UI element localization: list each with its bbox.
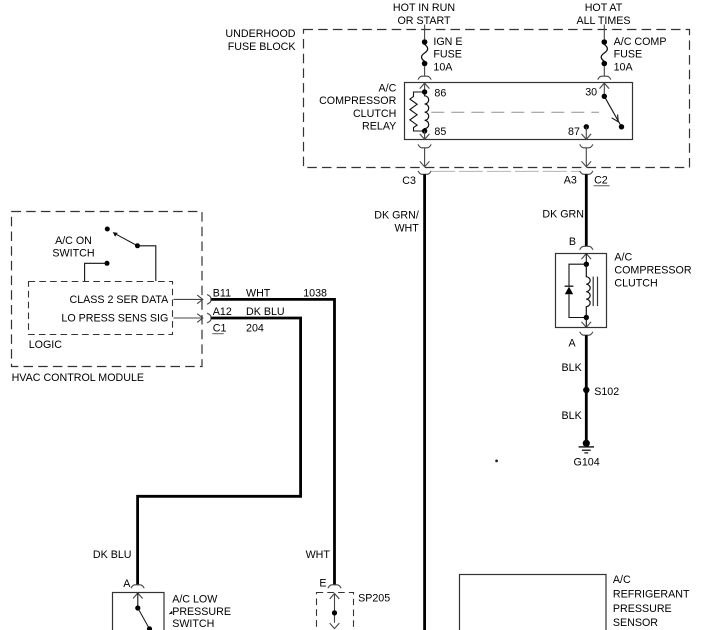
svg-text:FUSE: FUSE [614,49,643,61]
relay box A/C COMPRESSOR CLUTCH RELAY [405,83,633,140]
wire feed from HOT IN RUN to IGN E fuse [424,25,426,40]
fuse IGN E 10A [422,39,428,66]
svg-text:A/C: A/C [378,82,396,94]
connector female at clutch pin A [580,332,593,335]
junction node top of clutch [584,262,589,267]
connector C2 female cup (pin A3) [580,171,593,174]
svg-text:SENSOR: SENSOR [613,617,658,629]
low pressure switch pin A male arrow [133,593,143,608]
svg-text:87: 87 [568,126,580,138]
svg-text:FUSE BLOCK: FUSE BLOCK [228,41,297,53]
connector female at relay pin 30 [598,76,611,79]
relay switch contact (movable blade from 30) [604,96,624,129]
svg-text:A12: A12 [213,306,232,318]
label IGN E FUSE 10A [433,36,462,74]
svg-text:SWITCH: SWITCH [52,248,94,260]
svg-text:FUSE: FUSE [433,49,462,61]
logic box (dashed) [29,282,173,335]
svg-text:LOGIC: LOGIC [29,339,63,351]
connector female pin A12 [207,313,211,323]
label A/C LOW PRESSURE SWITCH [172,594,231,630]
svg-text:RELAY: RELAY [362,121,396,133]
splice pack SP205 box (dashed) [317,593,354,630]
svg-text:85: 85 [434,126,446,138]
svg-text:B: B [569,236,576,248]
relay internal dashed link (coil to switch) [431,111,599,113]
relay coil (between pins 86 and 85) [425,95,429,130]
wire fuse A/C COMP to relay pin 30 connector [603,66,605,76]
splice pack internal [330,594,340,629]
svg-text:C2: C2 [594,175,608,187]
svg-text:30: 30 [585,86,597,98]
ground G104 [579,440,594,453]
clutch pin A male arrow [582,318,592,328]
pin 30 (male arrow into relay) [600,83,610,99]
wire BLK (clutch pin A to ground G104) [585,335,588,441]
wire pin 87 connector to fuse block edge [580,144,593,166]
label A/C REFRIGERANT PRESSURE SENSOR [613,574,690,629]
A/C refrigerant pressure sensor box [460,575,607,630]
svg-text:A/C: A/C [613,574,631,586]
fuse A/C COMP 10A [601,39,607,66]
clutch core lines [593,277,597,307]
connector female below relay pin 85 [418,144,431,147]
node HOT AT ALL TIMES [576,2,630,27]
low pressure switch contact [135,605,152,630]
svg-text:1038: 1038 [303,288,327,300]
stray mark before PRESSURE [169,611,173,615]
svg-text:ALL TIMES: ALL TIMES [576,15,630,27]
svg-text:SWITCH: SWITCH [172,618,214,630]
label UNDERHOOD FUSE BLOCK [225,28,296,53]
svg-text:C3: C3 [402,175,416,187]
resistor in parallel with relay coil [410,92,425,131]
connector joint line C3 to C2 [431,170,580,172]
svg-text:S102: S102 [594,386,619,398]
label C2 (underlined) [594,175,610,187]
svg-text:SP205: SP205 [358,593,390,605]
wire WHT 1038 (B11 to splice SP205) [211,299,334,584]
wire class 2 serial data out (male arrow) [174,295,203,304]
connector female pin B11 [207,295,211,305]
label A/C ON SWITCH [52,235,94,260]
label A/C COMPRESSOR CLUTCH RELAY [319,82,396,132]
connector female at switch pin A [131,585,144,588]
svg-text:BLK: BLK [562,410,583,422]
connector C3 female cup [418,171,431,174]
svg-text:A/C LOW: A/C LOW [172,594,218,606]
svg-text:WHT: WHT [246,288,271,300]
svg-text:COMPRESSOR: COMPRESSOR [614,265,691,277]
wire pin 85 connector to fuse block edge [420,148,430,167]
wire DK BLU 204 (A12 to A/C low pressure switch) [138,318,301,585]
pin 86 (male arrow into relay) [420,83,430,95]
svg-text:PRESSURE: PRESSURE [172,606,231,618]
svg-text:CLUTCH: CLUTCH [353,108,396,120]
svg-text:LO PRESS SENS SIG: LO PRESS SENS SIG [61,312,168,324]
underhood fuse block (dashed boundary) [304,30,690,168]
svg-text:86: 86 [434,88,446,100]
splice S102 [583,387,589,393]
svg-text:A: A [123,578,131,590]
clutch coil [586,264,590,317]
wire fuse IGN E to relay pin 86 connector [424,66,426,76]
wire DK GRN (C2 down to compressor clutch pin B) [585,174,588,246]
svg-text:B11: B11 [213,288,231,300]
wire lo press sens sig out (male arrow) [174,314,203,323]
stray dot [495,460,498,463]
svg-text:PRESSURE: PRESSURE [613,603,672,615]
label A/C COMPRESSOR CLUTCH [614,252,691,290]
svg-text:CLASS 2 SER DATA: CLASS 2 SER DATA [70,294,170,306]
junction node bottom of clutch [584,315,589,320]
svg-text:HOT AT: HOT AT [585,2,623,14]
svg-text:G104: G104 [574,457,600,469]
svg-text:A3: A3 [564,175,577,187]
diode across clutch coil [565,264,587,317]
svg-text:UNDERHOOD: UNDERHOOD [225,28,295,40]
svg-text:10A: 10A [614,61,634,73]
svg-text:A/C: A/C [614,252,632,264]
connector female at relay pin 86 [418,76,431,79]
HVAC control module box (dashed) [12,212,203,367]
svg-text:WHT: WHT [306,549,331,561]
A/C low pressure switch box [113,593,165,630]
node HOT IN RUN OR START [393,2,455,27]
A/C ON switch symbol [105,227,140,249]
svg-text:REFRIGERANT: REFRIGERANT [613,589,690,601]
pin 87 (male arrow out of relay) [582,124,592,139]
svg-text:COMPRESSOR: COMPRESSOR [319,95,396,107]
wire switch right contact into logic [138,246,156,281]
svg-text:DK BLU: DK BLU [246,306,285,318]
label A/C COMP FUSE 10A [614,36,667,74]
svg-text:A: A [569,337,577,349]
pin 85 (male arrow out of relay) [420,128,430,139]
wire DK GRN/WHT (C3 down to bottom edge) [423,174,426,630]
wire switch left contact into logic [85,261,110,281]
wire label DK GRN/ WHT [374,210,419,235]
label C1 (underlined) [212,323,226,335]
svg-text:DK GRN/: DK GRN/ [374,210,419,222]
A/C compressor clutch box [556,254,607,328]
svg-text:CLUTCH: CLUTCH [614,278,657,290]
connector female at splice pack E [328,585,341,588]
svg-text:HOT IN RUN: HOT IN RUN [393,2,455,14]
svg-text:E: E [319,578,326,590]
svg-text:A/C ON: A/C ON [55,235,92,247]
svg-text:WHT: WHT [394,222,419,234]
svg-text:IGN E: IGN E [433,36,462,48]
svg-text:DK GRN: DK GRN [542,209,584,221]
svg-text:204: 204 [246,323,264,335]
connector female at clutch pin B [580,246,593,249]
svg-text:DK BLU: DK BLU [93,549,132,561]
clutch pin B male arrow [582,254,592,264]
svg-text:BLK: BLK [562,362,583,374]
svg-text:A/C COMP: A/C COMP [614,36,667,48]
wire feed from HOT AT ALL TIMES to A/C COMP fuse [603,25,605,40]
svg-text:C1: C1 [213,323,227,335]
svg-text:HVAC CONTROL MODULE: HVAC CONTROL MODULE [12,372,144,384]
svg-text:10A: 10A [433,61,453,73]
